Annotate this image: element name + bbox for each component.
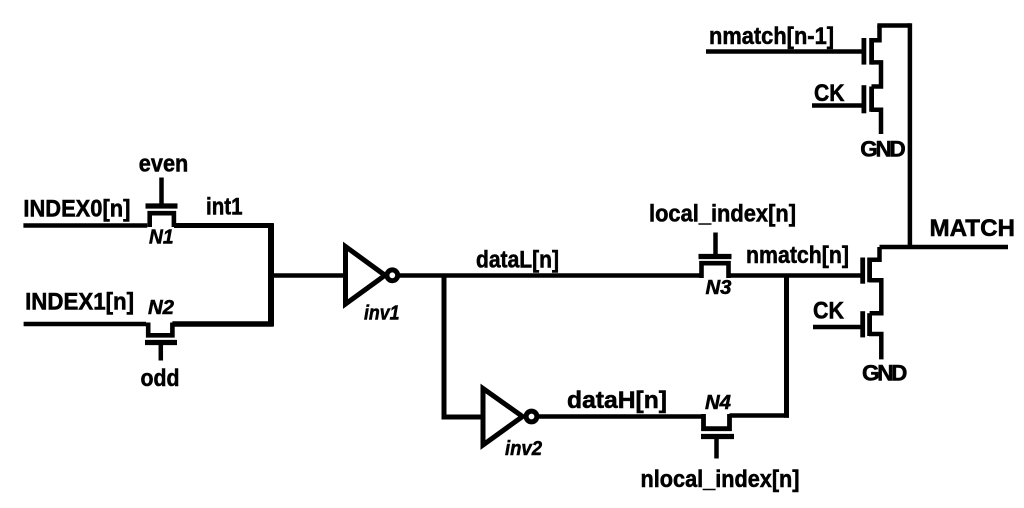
svg-text:MATCH: MATCH <box>930 215 1016 242</box>
svg-text:nmatch[n-1]: nmatch[n-1] <box>709 23 834 50</box>
svg-text:int1: int1 <box>206 194 243 221</box>
op-amp inv2 <box>483 389 537 446</box>
wire N2 output to trunk <box>172 321 273 327</box>
svg-text:dataL[n]: dataL[n] <box>476 247 559 274</box>
wire dataH[n] <box>538 414 704 419</box>
svg-text:even: even <box>139 151 189 178</box>
transistor Q1 (gate nmatch[n-1]) <box>864 26 881 87</box>
svg-text:N4: N4 <box>705 392 731 414</box>
svg-text:N1: N1 <box>149 227 174 249</box>
wire right rail <box>908 23 913 248</box>
transistor Q3 (gate nmatch[n]) <box>863 247 882 313</box>
wire nmatch[n-1] input <box>706 49 862 54</box>
wire dataL[n] <box>399 273 702 278</box>
wire int1 (N1 output to trunk) <box>174 223 274 228</box>
wire nmatch[n] (N3 output to right stack gate) <box>729 273 862 278</box>
svg-text:dataH[n]: dataH[n] <box>567 387 667 414</box>
wire trunk to inv1 input <box>268 273 346 278</box>
svg-text:inv1: inv1 <box>364 303 400 325</box>
wire trunk joining int1 and N2 output <box>268 223 274 326</box>
svg-text:INDEX0[n]: INDEX0[n] <box>23 196 130 223</box>
svg-text:GND: GND <box>862 361 907 386</box>
op-amp inv1 <box>346 247 398 305</box>
transistor N2 <box>145 323 177 361</box>
svg-text:CK: CK <box>813 298 845 325</box>
svg-text:CK: CK <box>814 80 845 107</box>
wire top bar to rail <box>877 23 910 28</box>
svg-text:N2: N2 <box>148 297 174 319</box>
transistor Q4 (gate CK lower) <box>863 311 882 359</box>
wire N4 output <box>730 413 790 418</box>
wire MATCH output <box>880 245 1009 250</box>
wire CK input (lower) <box>813 325 861 330</box>
svg-text:N3: N3 <box>706 277 732 299</box>
wire INDEX0[n] input <box>23 223 147 228</box>
svg-text:GND: GND <box>860 137 905 162</box>
transistor Q2 (gate CK upper) <box>864 85 881 134</box>
wire CK input (upper) <box>812 103 862 108</box>
svg-text:nmatch[n]: nmatch[n] <box>746 242 849 269</box>
wire INDEX1[n] input <box>24 322 146 327</box>
wire dataL drop to inv2 input <box>444 274 484 418</box>
svg-text:INDEX1[n]: INDEX1[n] <box>25 289 134 316</box>
wire N4 output up to nmatch[n] <box>784 276 789 418</box>
transistor N3 <box>699 233 732 279</box>
svg-text:local_index[n]: local_index[n] <box>649 201 796 228</box>
svg-text:inv2: inv2 <box>505 438 542 460</box>
svg-text:odd: odd <box>141 365 180 392</box>
svg-text:nlocal_index[n]: nlocal_index[n] <box>641 466 800 493</box>
transistor N1 <box>146 178 178 228</box>
transistor N4 <box>701 414 734 459</box>
